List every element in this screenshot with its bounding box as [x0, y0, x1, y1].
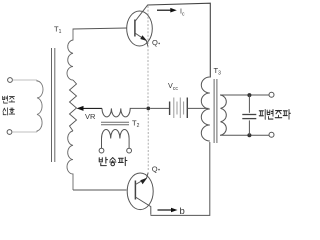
svg-text:b: b — [180, 206, 185, 217]
svg-text:VR: VR — [85, 112, 96, 121]
svg-text:Q: Q — [152, 38, 158, 47]
svg-text:Vcc: Vcc — [168, 81, 178, 92]
svg-text:T3: T3 — [214, 66, 222, 77]
svg-text:Q: Q — [152, 165, 158, 174]
svg-text:T1: T1 — [54, 25, 62, 36]
svg-text:Ic: Ic — [180, 9, 185, 18]
svg-text:T2: T2 — [132, 119, 140, 130]
